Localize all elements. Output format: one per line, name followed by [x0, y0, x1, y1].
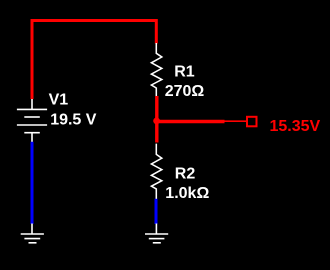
- probe symbol: [247, 117, 257, 127]
- svg-text:1.0kΩ: 1.0kΩ: [165, 185, 209, 202]
- svg-text:R1: R1: [174, 63, 195, 80]
- svg-text:270Ω: 270Ω: [165, 83, 205, 100]
- resistor R1: [151, 43, 161, 97]
- probe lead: [224, 120, 246, 122]
- wire battery positive up to top rail: [31, 21, 34, 100]
- ground left: [21, 224, 44, 243]
- svg-text:R2: R2: [175, 165, 196, 182]
- wire top rail: [31, 19, 157, 22]
- svg-text:15.35V: 15.35V: [270, 118, 321, 135]
- resistor R2: [151, 144, 161, 199]
- svg-text:19.5 V: 19.5 V: [50, 112, 97, 129]
- wire top rail down to R1 pin 1: [155, 19, 158, 44]
- svg-text:V1: V1: [49, 92, 69, 109]
- wire R2 pin 2 to ground: [155, 199, 158, 224]
- wire node to probe: [155, 120, 225, 123]
- junction node: [153, 118, 160, 125]
- wire battery negative to ground: [31, 142, 34, 224]
- ground bottom: [145, 224, 168, 243]
- battery V1: [17, 99, 47, 142]
- wire R1 pin 2 down to node: [155, 96, 158, 143]
